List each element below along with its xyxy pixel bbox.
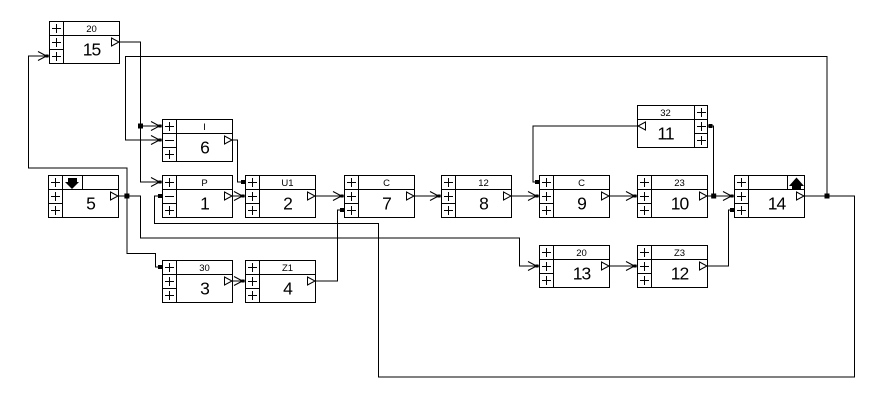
- block 12: [637, 245, 708, 288]
- block 9: [539, 175, 610, 218]
- svg-text:8: 8: [479, 194, 488, 214]
- wire 11.out to 9.in1: [533, 126, 637, 184]
- wire 2.out to 7.in2: [316, 192, 344, 201]
- svg-text:2: 2: [283, 194, 292, 214]
- wire 15.out to junction A: [120, 42, 141, 126]
- block 10: [637, 175, 708, 218]
- wire junction D feedback top to 6.in2: [126, 57, 828, 197]
- block 5: [48, 175, 119, 218]
- svg-text:20: 20: [576, 248, 587, 259]
- junction B: [124, 194, 129, 199]
- block 11: [637, 105, 708, 148]
- svg-text:10: 10: [671, 194, 690, 214]
- wire 3.out to 4.in2: [233, 277, 245, 286]
- wire 5.out to junction B: [119, 195, 127, 197]
- svg-text:5: 5: [86, 194, 95, 214]
- junction A: [138, 124, 143, 129]
- wire junction C to 11.in2: [708, 124, 714, 196]
- svg-text:C: C: [578, 178, 585, 189]
- wire junction B to 13.in2: [127, 196, 539, 271]
- svg-text:6: 6: [200, 138, 209, 158]
- block 13: [539, 245, 610, 288]
- wire junction B to 3.in1: [127, 196, 162, 269]
- svg-text:12: 12: [671, 264, 689, 284]
- block 2: [245, 175, 316, 218]
- junction C: [711, 194, 716, 199]
- svg-text:I: I: [203, 122, 206, 133]
- wire 9.out to 10.in2: [610, 192, 637, 201]
- wire 6.out to 2.in1: [233, 140, 245, 184]
- block 1: [162, 175, 233, 218]
- wire 1.out to 2.in2: [233, 192, 245, 201]
- block 15: [49, 21, 120, 64]
- wire junction B to 15.in3: [29, 52, 127, 197]
- block 3: [162, 260, 233, 303]
- svg-text:7: 7: [382, 194, 391, 214]
- svg-text:30: 30: [199, 263, 210, 274]
- svg-text:C: C: [383, 178, 390, 189]
- svg-text:Z1: Z1: [282, 263, 293, 274]
- wire junction D feedback bottom to 1.in2: [155, 194, 855, 377]
- wire 14.out to junction D: [805, 195, 827, 197]
- svg-text:Z3: Z3: [674, 248, 685, 259]
- block 7: [344, 175, 415, 218]
- svg-text:20: 20: [86, 24, 97, 35]
- block 4: [245, 260, 316, 303]
- wire junction A to 6.in1: [141, 122, 163, 131]
- svg-text:15: 15: [83, 40, 101, 60]
- wire 12.out to 14.in3: [708, 208, 734, 266]
- wire junction A to 1.in1: [141, 126, 163, 187]
- svg-text:11: 11: [657, 124, 673, 144]
- wire 8.out to 9.in2: [512, 192, 539, 201]
- wire 4.out to 7.in3: [316, 208, 344, 281]
- wire 13.out to 12.in2: [610, 262, 637, 271]
- svg-text:23: 23: [674, 178, 685, 189]
- block 8: [441, 175, 512, 218]
- wire junction C to 14.in2: [714, 192, 734, 201]
- svg-text:3: 3: [200, 279, 209, 299]
- svg-text:4: 4: [283, 279, 293, 299]
- junction D: [825, 194, 830, 199]
- svg-text:9: 9: [577, 194, 586, 214]
- wire 7.out to 8.in2: [415, 192, 441, 201]
- svg-text:P: P: [201, 178, 207, 189]
- svg-text:U1: U1: [281, 178, 293, 189]
- block 14: [734, 175, 805, 218]
- svg-text:1: 1: [200, 194, 209, 214]
- svg-text:32: 32: [660, 108, 671, 119]
- svg-text:13: 13: [573, 264, 591, 284]
- svg-text:12: 12: [478, 178, 489, 189]
- svg-text:14: 14: [768, 194, 787, 214]
- wire 10.out to junction C: [708, 195, 714, 197]
- block 6: [162, 119, 233, 162]
